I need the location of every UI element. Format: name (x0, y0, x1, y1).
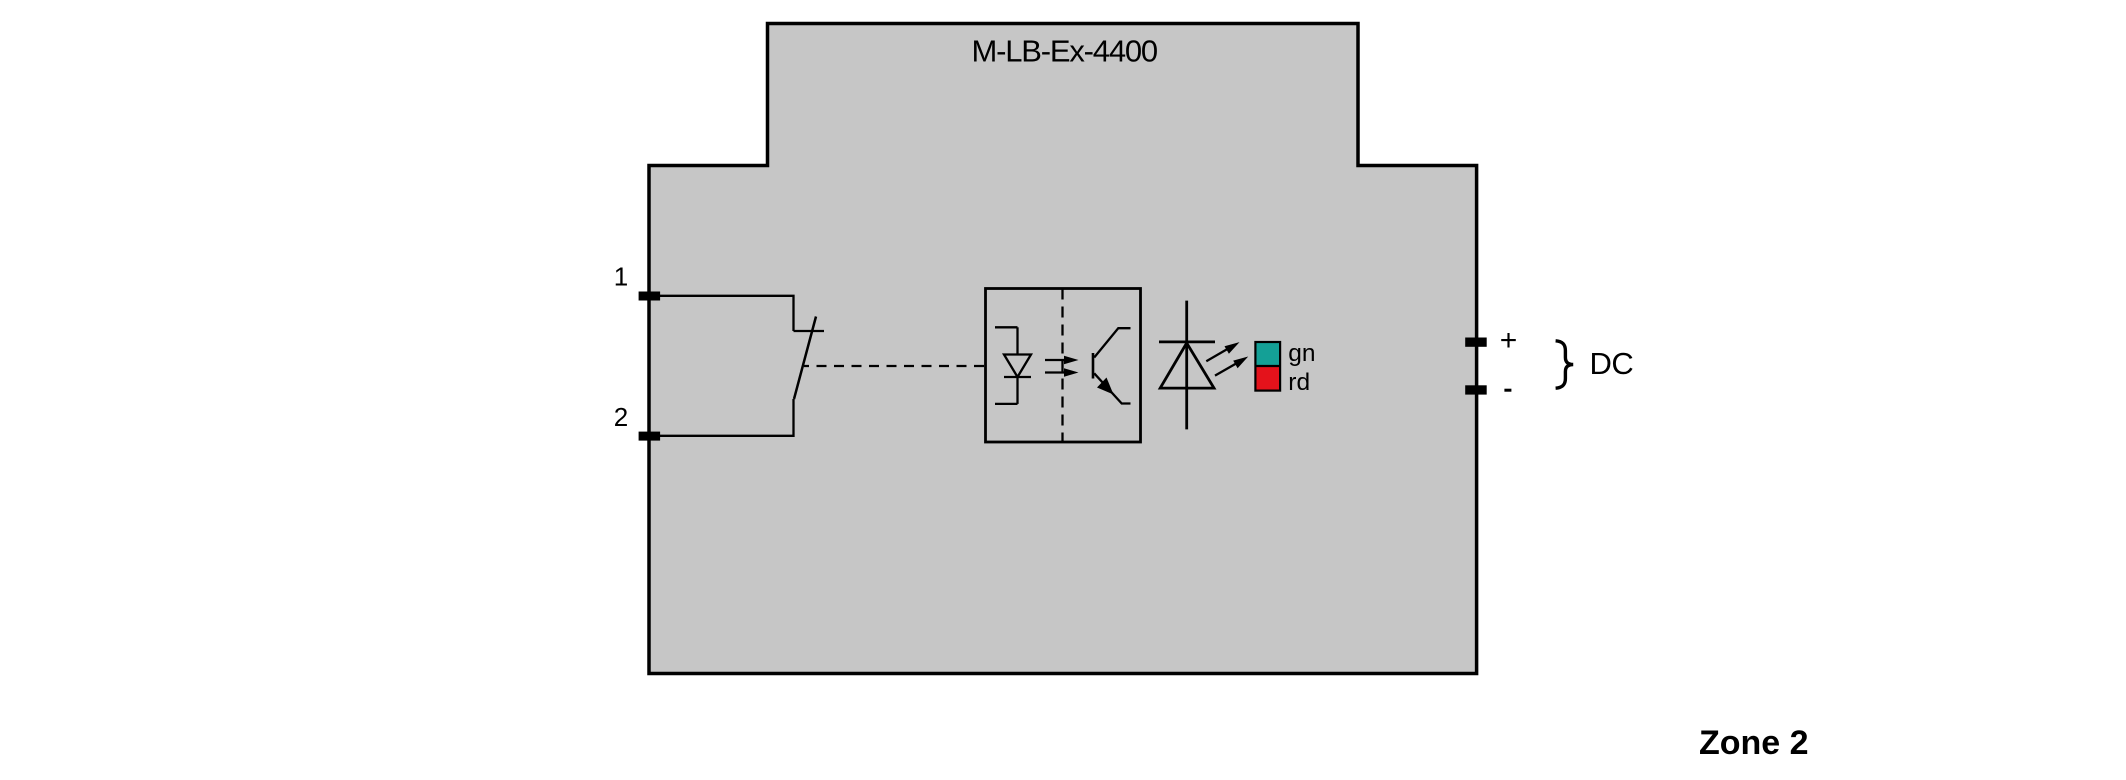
svg-text:2: 2 (614, 402, 628, 432)
svg-text:1: 1 (614, 262, 628, 292)
svg-text:+: + (1500, 324, 1518, 357)
svg-text:DC: DC (1590, 346, 1634, 381)
switch blade (794, 317, 816, 400)
label - (1504, 389, 1511, 392)
LED indicator diode D1 (1159, 301, 1215, 430)
wire terminal 1 to switch top (650, 296, 794, 331)
svg-text:gn: gn (1288, 340, 1315, 367)
brace DC (1556, 341, 1574, 388)
module outline M-LB-Ex-4400 body (649, 24, 1477, 674)
LED emission arrow upper (1206, 342, 1239, 361)
terminal + (1465, 338, 1487, 347)
LED indicator color squares gn/rd (1255, 342, 1280, 391)
optocoupler isolation dashed divider (1061, 289, 1063, 443)
optocoupler LED diode (995, 327, 1031, 404)
terminal 1 (639, 292, 661, 301)
svg-text:M-LB-Ex-4400: M-LB-Ex-4400 (972, 33, 1158, 68)
optical coupling arrow lower (1045, 368, 1079, 377)
terminal 2 (639, 432, 661, 441)
optical coupling arrow upper (1045, 356, 1079, 365)
svg-text:rd: rd (1288, 369, 1310, 396)
dashed actuation link switch to optocoupler (804, 365, 986, 367)
LED emission arrow lower (1215, 357, 1248, 376)
wire switch bottom to terminal 2 (650, 399, 794, 436)
switch fixed contact tick (794, 330, 825, 332)
phototransistor Q1 (1093, 328, 1131, 403)
optocoupler box U1 (986, 289, 1141, 443)
svg-text:Zone 2: Zone 2 (1699, 724, 1809, 762)
terminal - (1465, 385, 1487, 394)
